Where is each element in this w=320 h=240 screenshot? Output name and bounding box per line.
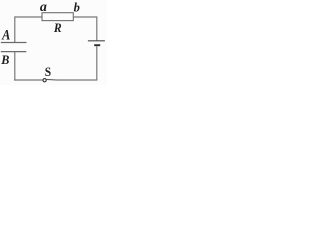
wire right lower xyxy=(96,46,98,80)
svg-text:A: A xyxy=(1,27,10,43)
svg-text:a: a xyxy=(40,0,47,15)
capacitor plate B xyxy=(1,51,27,53)
wire left lower xyxy=(14,52,16,81)
wire bottom left segment xyxy=(14,79,43,81)
wire bottom right segment xyxy=(56,79,97,81)
svg-text:R: R xyxy=(53,21,62,35)
wire right upper xyxy=(96,16,98,40)
svg-text:S: S xyxy=(45,64,52,79)
battery long plate xyxy=(88,40,105,42)
switch S blade xyxy=(46,78,56,81)
wire top right segment xyxy=(73,16,97,18)
svg-text:B: B xyxy=(0,53,9,67)
switch S pivot circle xyxy=(43,79,46,82)
wire left upper xyxy=(14,16,16,42)
battery short thick plate xyxy=(94,44,100,46)
wire top left segment xyxy=(15,16,42,18)
resistor R box xyxy=(42,13,73,21)
capacitor plate A xyxy=(1,42,27,44)
svg-text:b: b xyxy=(74,1,80,15)
